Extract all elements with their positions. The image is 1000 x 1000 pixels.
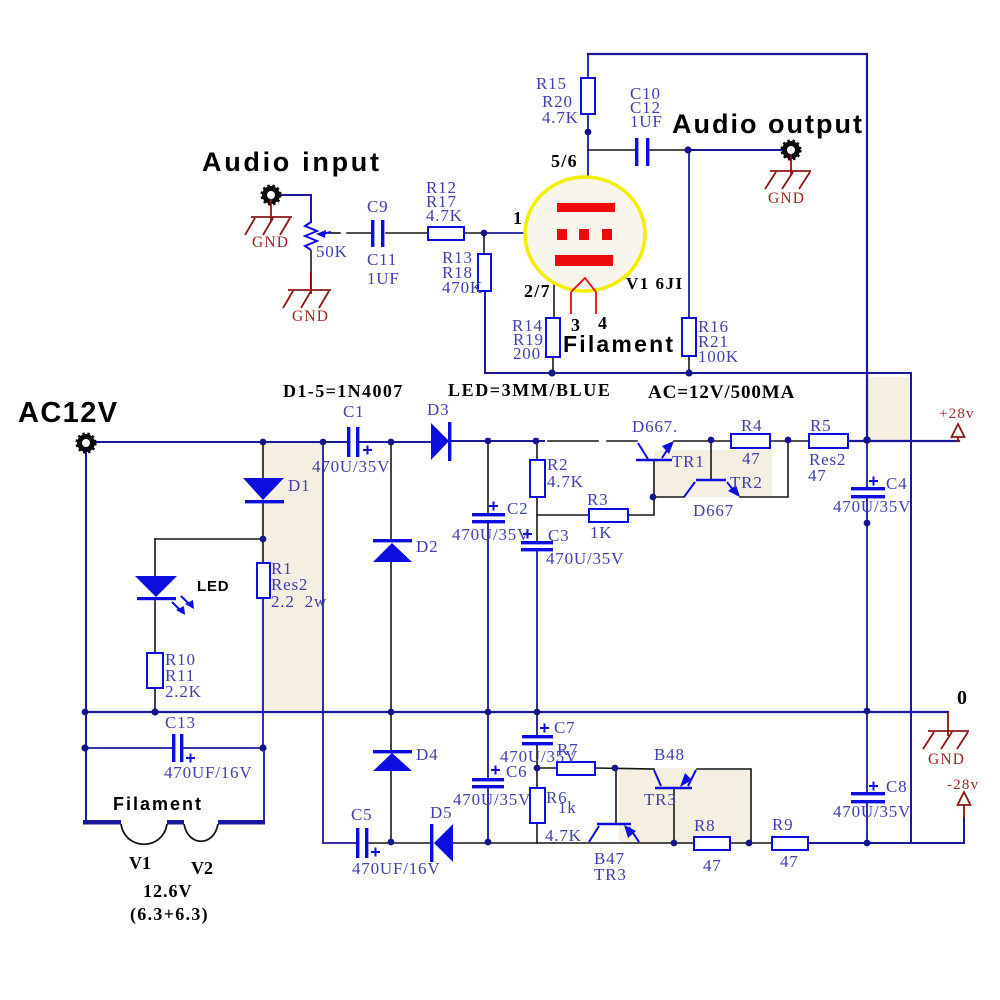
svg-text:C7: C7 [554,718,575,737]
wire R10 to 0 rail [154,688,156,712]
wire grid from R12 node to tube [484,232,557,234]
svg-text:-28v: -28v [947,777,979,793]
ground GND input jack [245,199,292,235]
node R10 bottom [151,708,158,715]
capacitor C2 [472,502,505,524]
resistor R8 [694,837,730,850]
transistor TR2 [684,480,737,497]
wire to C9 [347,232,371,234]
wire top rail from R15 to right corner [588,54,867,440]
svg-text:Audio input: Audio input [202,147,382,177]
svg-text:4: 4 [598,313,607,333]
svg-text:4.7K: 4.7K [547,472,584,491]
wire D2 bottom [390,562,392,751]
wire LED to R10 [154,599,156,653]
wire C3 down to C7 [536,551,538,735]
svg-text:V1: V1 [129,853,151,873]
svg-text:R9: R9 [772,815,793,834]
node B48 base bottom [671,840,678,847]
svg-text:47: 47 [742,449,761,468]
svg-text:D2: D2 [416,537,438,556]
node 0 rail right [864,708,871,715]
diode D3 [431,423,449,460]
power -28v arrow [958,792,971,818]
resistor R13 R18 [478,254,491,291]
resistor R9 [772,837,808,850]
wire C2 top [487,441,489,513]
svg-text:1UF: 1UF [367,269,400,288]
capacitor C8 [851,782,885,804]
resistor R15 R20 [581,78,595,114]
svg-text:R7: R7 [557,740,578,759]
svg-text:R8: R8 [694,816,715,835]
svg-text:B48: B48 [654,745,685,764]
filament humps [121,824,218,844]
node R6 C7 [534,765,541,772]
wire TR1 base node to TR2 collector [653,496,684,498]
svg-text:100K: 100K [698,347,739,366]
svg-text:50K: 50K [316,242,348,261]
node D1 R1 LED [260,536,267,543]
diode D5 [430,824,433,862]
node TR2 base top [708,437,715,444]
node audio output [684,146,691,153]
resistor R10 R11 [147,653,163,688]
LED symbol [135,576,177,597]
wire output node down to R16 [688,150,690,318]
wire R14 bottom [552,357,554,373]
svg-text:R15: R15 [536,74,567,93]
node R7 right [612,765,619,772]
node D4 top [388,709,395,716]
svg-text:2/7: 2/7 [524,281,551,301]
ground GND output jack [765,154,811,189]
wire D1 to R1 [262,503,264,563]
resistor R12 R17 [428,227,464,240]
capacitor C9 C11 [371,220,384,247]
svg-text:(6.3+6.3): (6.3+6.3) [130,904,209,925]
wire dash to TR1 [548,440,598,442]
wire 0 rail to C8 [866,712,868,792]
svg-text:0: 0 [957,687,967,709]
wire C8 bottom [866,803,868,843]
resistor R2 [530,460,545,497]
svg-text:4.7K: 4.7K [542,108,579,127]
node +28 rail [863,436,871,444]
wire pot bottom to GND [310,251,312,289]
node C2 top [485,438,492,445]
capacitor C1 [347,427,372,457]
node R2 top [533,438,540,445]
node grid R12 [481,230,488,237]
wire right C4 column top [866,440,868,487]
svg-text:LED: LED [197,578,229,595]
wire R9 to -28v corner [808,817,964,843]
wire R7 left [537,767,557,769]
node R15 bottom [585,129,592,136]
wire R6 bottom [536,823,538,843]
svg-text:Filament: Filament [113,794,203,814]
wire left column [85,452,87,821]
svg-text:470U/35V: 470U/35V [546,549,624,568]
node C13 right [259,744,266,751]
svg-text:470UF/16V: 470UF/16V [164,763,252,782]
wire R8 to R9 [730,842,772,844]
svg-text:D5: D5 [430,803,452,822]
capacitor C3 [521,530,553,552]
svg-text:2.2 2w: 2.2 2w [271,592,327,611]
connector J1 audio input [265,189,278,202]
svg-text:47: 47 [703,856,722,875]
svg-text:D667: D667 [693,501,734,520]
wire LED top [154,539,156,576]
wire 0 rail [85,711,948,713]
wire B48 base down [673,789,675,843]
svg-text:TR3: TR3 [594,865,627,884]
svg-text:C13: C13 [165,713,196,732]
svg-text:C2: C2 [507,499,528,518]
svg-text:12.6V: 12.6V [143,881,193,901]
wire B48 emitter line to corner [697,769,751,843]
wire D2 D4 column [390,442,392,540]
wire C5 to D4 node [369,842,431,844]
svg-text:V2: V2 [191,858,213,878]
tube cathode [555,255,613,266]
wire C13 node to filament right [263,748,265,822]
capacitor C6 [472,766,504,789]
node C4 bottom [864,520,871,527]
wire C4 bottom to 0 rail [866,498,868,712]
svg-text:+28v: +28v [939,406,975,422]
node C6 bottom [485,839,492,846]
transistor TR1 [636,443,672,460]
node C7 top [534,709,541,716]
wire C1 left column down to C5 [323,442,357,843]
svg-text:C1: C1 [343,402,364,421]
wire R13 top [483,233,485,254]
node D4 bottom [388,839,395,846]
wire D1 top [262,442,264,478]
wire R3 left to R2 column [537,514,589,516]
connector J2 audio output [785,144,798,157]
resistor R4 [731,434,770,448]
node TR1 base [650,494,657,501]
svg-text:1: 1 [513,208,522,228]
power +28v arrow [952,424,965,442]
svg-text:AC=12V/500MA: AC=12V/500MA [648,382,795,403]
svg-text:C4: C4 [886,474,907,493]
svg-text:C11: C11 [367,250,397,269]
wire R2 top [536,441,538,460]
svg-text:47: 47 [780,852,799,871]
node R8 right [746,840,753,847]
wire input connector to corner [281,195,311,222]
node C8 bottom rail [864,840,871,847]
filament bar [83,820,265,825]
wire C7 to R6 node [536,745,538,788]
resistor R16 R21 [682,318,696,356]
resistor R3 [589,509,628,522]
wire C13 right [184,747,264,749]
node R16 heater rail [685,369,692,376]
diode D2 [373,539,412,542]
svg-text:470U/35V: 470U/35V [452,525,530,544]
node R14 heater rail [548,369,555,376]
diode D1 [243,478,284,500]
svg-text:470U/35V: 470U/35V [312,457,390,476]
wire C2 bottom to C6 [487,523,489,778]
wire TR2 base [710,441,712,479]
ground GND pot [283,272,331,308]
wire C6 bottom [487,788,489,843]
svg-text:4.7K: 4.7K [545,826,582,845]
svg-text:R3: R3 [587,490,608,509]
svg-text:C9: C9 [367,197,388,216]
svg-text:TR3: TR3 [644,790,677,809]
node R4 right [785,437,792,444]
wire D3 to TR1 [452,440,544,442]
wire node to C10 [588,149,635,151]
wire AC top rail [96,441,349,443]
potentiometer 50K [305,222,331,250]
svg-text:1K: 1K [590,523,612,542]
wire dash2 to TR1 [607,440,637,442]
diode D4 [373,750,412,753]
svg-text:4.7K: 4.7K [426,206,463,225]
wire R16 bottom [688,356,690,374]
resistor R6 [530,788,545,823]
resistor R14 R19 [546,318,560,357]
capacitor C7 [522,724,553,746]
svg-text:D4: D4 [416,745,438,764]
capacitor C4 [851,477,885,499]
wire R4 to R5 [770,440,809,442]
wire horizontal heater rail y373 [485,291,911,843]
wire R12 to node [464,232,484,234]
node D2 top [388,439,395,446]
svg-text:Audio output: Audio output [672,109,864,139]
wire R15 top [587,54,589,78]
capacitor C5 [356,828,380,858]
svg-text:47: 47 [808,466,827,485]
svg-text:GND: GND [928,751,965,768]
svg-text:GND: GND [768,190,805,207]
svg-text:5/6: 5/6 [551,151,578,171]
svg-text:LED=3MM/BLUE: LED=3MM/BLUE [448,380,611,400]
wire output node to connector [688,149,782,151]
wire R2 to C3 [536,497,538,541]
tube grid [557,229,567,240]
svg-text:V1 6JI: V1 6JI [626,274,684,293]
wire C13 left [85,747,172,749]
node C13 left [81,744,88,751]
svg-text:D3: D3 [427,400,449,419]
wire TR1 emitter to R4 [674,440,731,442]
wire R7 right to B48 [595,768,654,769]
svg-text:R4: R4 [741,416,762,435]
svg-text:TR2: TR2 [730,473,763,492]
svg-text:C3: C3 [548,526,569,545]
node C6 top [485,709,492,716]
wire R1 to 0 rail [262,598,264,748]
wire cathode 2/7 down to R14 [553,264,555,318]
svg-text:200: 200 [513,344,541,363]
node D1 top [260,439,267,446]
svg-text:1k: 1k [558,798,577,817]
wire R5 to +28v [848,440,959,442]
svg-text:TR1: TR1 [672,452,705,471]
svg-text:GND: GND [292,308,329,325]
SHADING [261,377,911,843]
svg-text:D667.: D667. [632,417,678,436]
svg-text:2.2K: 2.2K [165,682,202,701]
tube V1 6JI envelope [525,177,645,291]
transistor TR3 B48 [654,770,696,788]
svg-text:470U/35V: 470U/35V [833,497,911,516]
wire R15 bottom to plate [587,114,589,205]
svg-text:470K: 470K [442,278,483,297]
svg-text:470U/35V: 470U/35V [833,802,911,821]
transistor TR3 B47 [589,824,639,842]
svg-text:D1: D1 [288,476,310,495]
wire C10 to output node [650,149,688,151]
svg-text:C8: C8 [886,777,907,796]
svg-text:C5: C5 [351,805,372,824]
svg-text:AC12V: AC12V [18,397,119,429]
wire C1 right to D3 [359,441,431,443]
wire B47 base up [615,768,617,823]
wire TR2 emitter to corner [740,441,788,497]
svg-text:D1-5=1N4007: D1-5=1N4007 [283,381,404,401]
wire pot wiper to C9 [329,232,340,234]
connector J3 AC12V [80,437,93,450]
svg-text:3: 3 [571,315,580,335]
wire D5 to rail [453,842,694,844]
capacitor C10 C12 [635,138,649,166]
node C1 left [320,439,327,446]
ground GND zero rail [923,712,969,749]
resistor R1 [257,563,270,598]
tube filament wires [571,278,596,314]
resistor R5 [809,434,848,448]
node 0 rail left [82,709,89,716]
wire LED branch horizontal [155,538,263,540]
svg-text:470UF/16V: 470UF/16V [352,859,440,878]
svg-text:470U/35V: 470U/35V [453,790,531,809]
tube plate [557,203,615,212]
resistor R7 [557,762,595,775]
wire C9 to R12 [386,232,428,234]
capacitor C13 [172,734,195,763]
wire D4 bottom [390,771,392,843]
svg-text:GND: GND [252,234,289,251]
wire TR1 base down [628,461,654,515]
svg-text:1UF: 1UF [630,112,663,131]
svg-text:R5: R5 [810,416,831,435]
